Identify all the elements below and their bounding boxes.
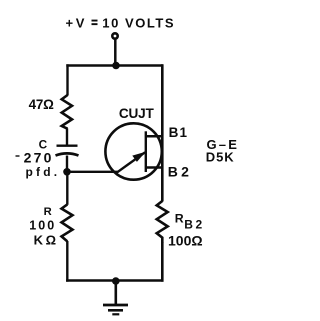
transistor Q1 base bar — [145, 131, 147, 172]
wire terminal to top rail — [114, 39, 117, 66]
svg-text:CUJT: CUJT — [119, 106, 155, 121]
svg-text:100Ω: 100Ω — [168, 232, 203, 248]
svg-text:+V: +V — [66, 16, 87, 31]
label R 100 KΩ — [29, 206, 58, 247]
svg-text:10 VOLTS: 10 VOLTS — [102, 16, 175, 31]
wire left rail upper — [66, 64, 68, 95]
capacitor C1 270 pfd — [56, 146, 79, 156]
svg-text:270: 270 — [24, 150, 54, 166]
svg-text:KΩ: KΩ — [34, 233, 59, 248]
wire right rail — [161, 64, 164, 201]
wire left rail lower — [66, 241, 68, 282]
ground — [103, 281, 128, 314]
node top junction — [112, 62, 120, 70]
resistor R3 RB2 100Ω — [157, 201, 168, 243]
wire emitter node to transistor — [67, 171, 119, 173]
node emitter junction — [63, 168, 71, 176]
svg-text:B1: B1 — [169, 125, 189, 140]
transistor Q1 base-1 lead — [146, 135, 163, 138]
label +V = 10 VOLTS — [66, 16, 176, 31]
terminal +V — [112, 33, 117, 38]
svg-text:pfd.: pfd. — [26, 165, 61, 179]
wire right rail lower — [161, 242, 164, 282]
svg-text:D5K: D5K — [206, 149, 235, 164]
svg-text:B2: B2 — [184, 218, 204, 232]
node ground junction — [112, 277, 120, 285]
transistor Q1 CUJT body — [105, 123, 161, 179]
wire top rail — [66, 64, 163, 67]
transistor Q1 emitter lead with arrow — [117, 152, 146, 173]
label C 270 pfd — [16, 138, 61, 179]
wire resistor to capacitor — [66, 128, 68, 145]
svg-text:B2: B2 — [168, 164, 192, 180]
resistor R2 100KΩ — [62, 204, 73, 241]
wire left rail middle segment — [66, 172, 68, 205]
svg-text:100: 100 — [29, 219, 56, 233]
svg-text:R: R — [175, 211, 184, 225]
svg-text:R: R — [44, 206, 52, 218]
svg-text:47Ω: 47Ω — [29, 97, 54, 112]
wire capacitor to emitter node — [66, 156, 68, 173]
wire bottom rail — [66, 279, 163, 281]
resistor R1 47Ω — [62, 95, 72, 129]
transistor Q1 base-2 lead — [146, 166, 163, 169]
label RB2 100Ω — [168, 211, 205, 248]
